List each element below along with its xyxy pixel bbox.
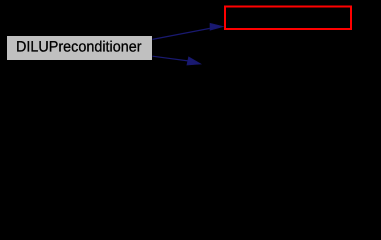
svg-text:DILUPreconditioner: DILUPreconditioner <box>16 38 142 55</box>
